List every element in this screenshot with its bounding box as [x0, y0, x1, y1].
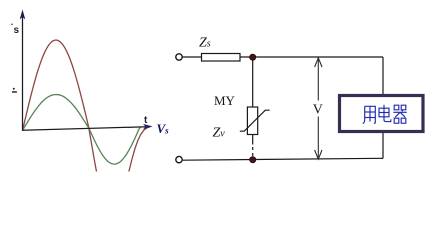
- svg-text:Zs: Zs: [199, 36, 211, 51]
- svg-text:t: t: [144, 115, 148, 126]
- svg-text:Zv: Zv: [213, 126, 226, 141]
- svg-text:s: s: [14, 25, 20, 36]
- svg-text:MY: MY: [214, 93, 236, 108]
- svg-text:V: V: [313, 103, 323, 118]
- svg-text:Vs: Vs: [157, 121, 170, 136]
